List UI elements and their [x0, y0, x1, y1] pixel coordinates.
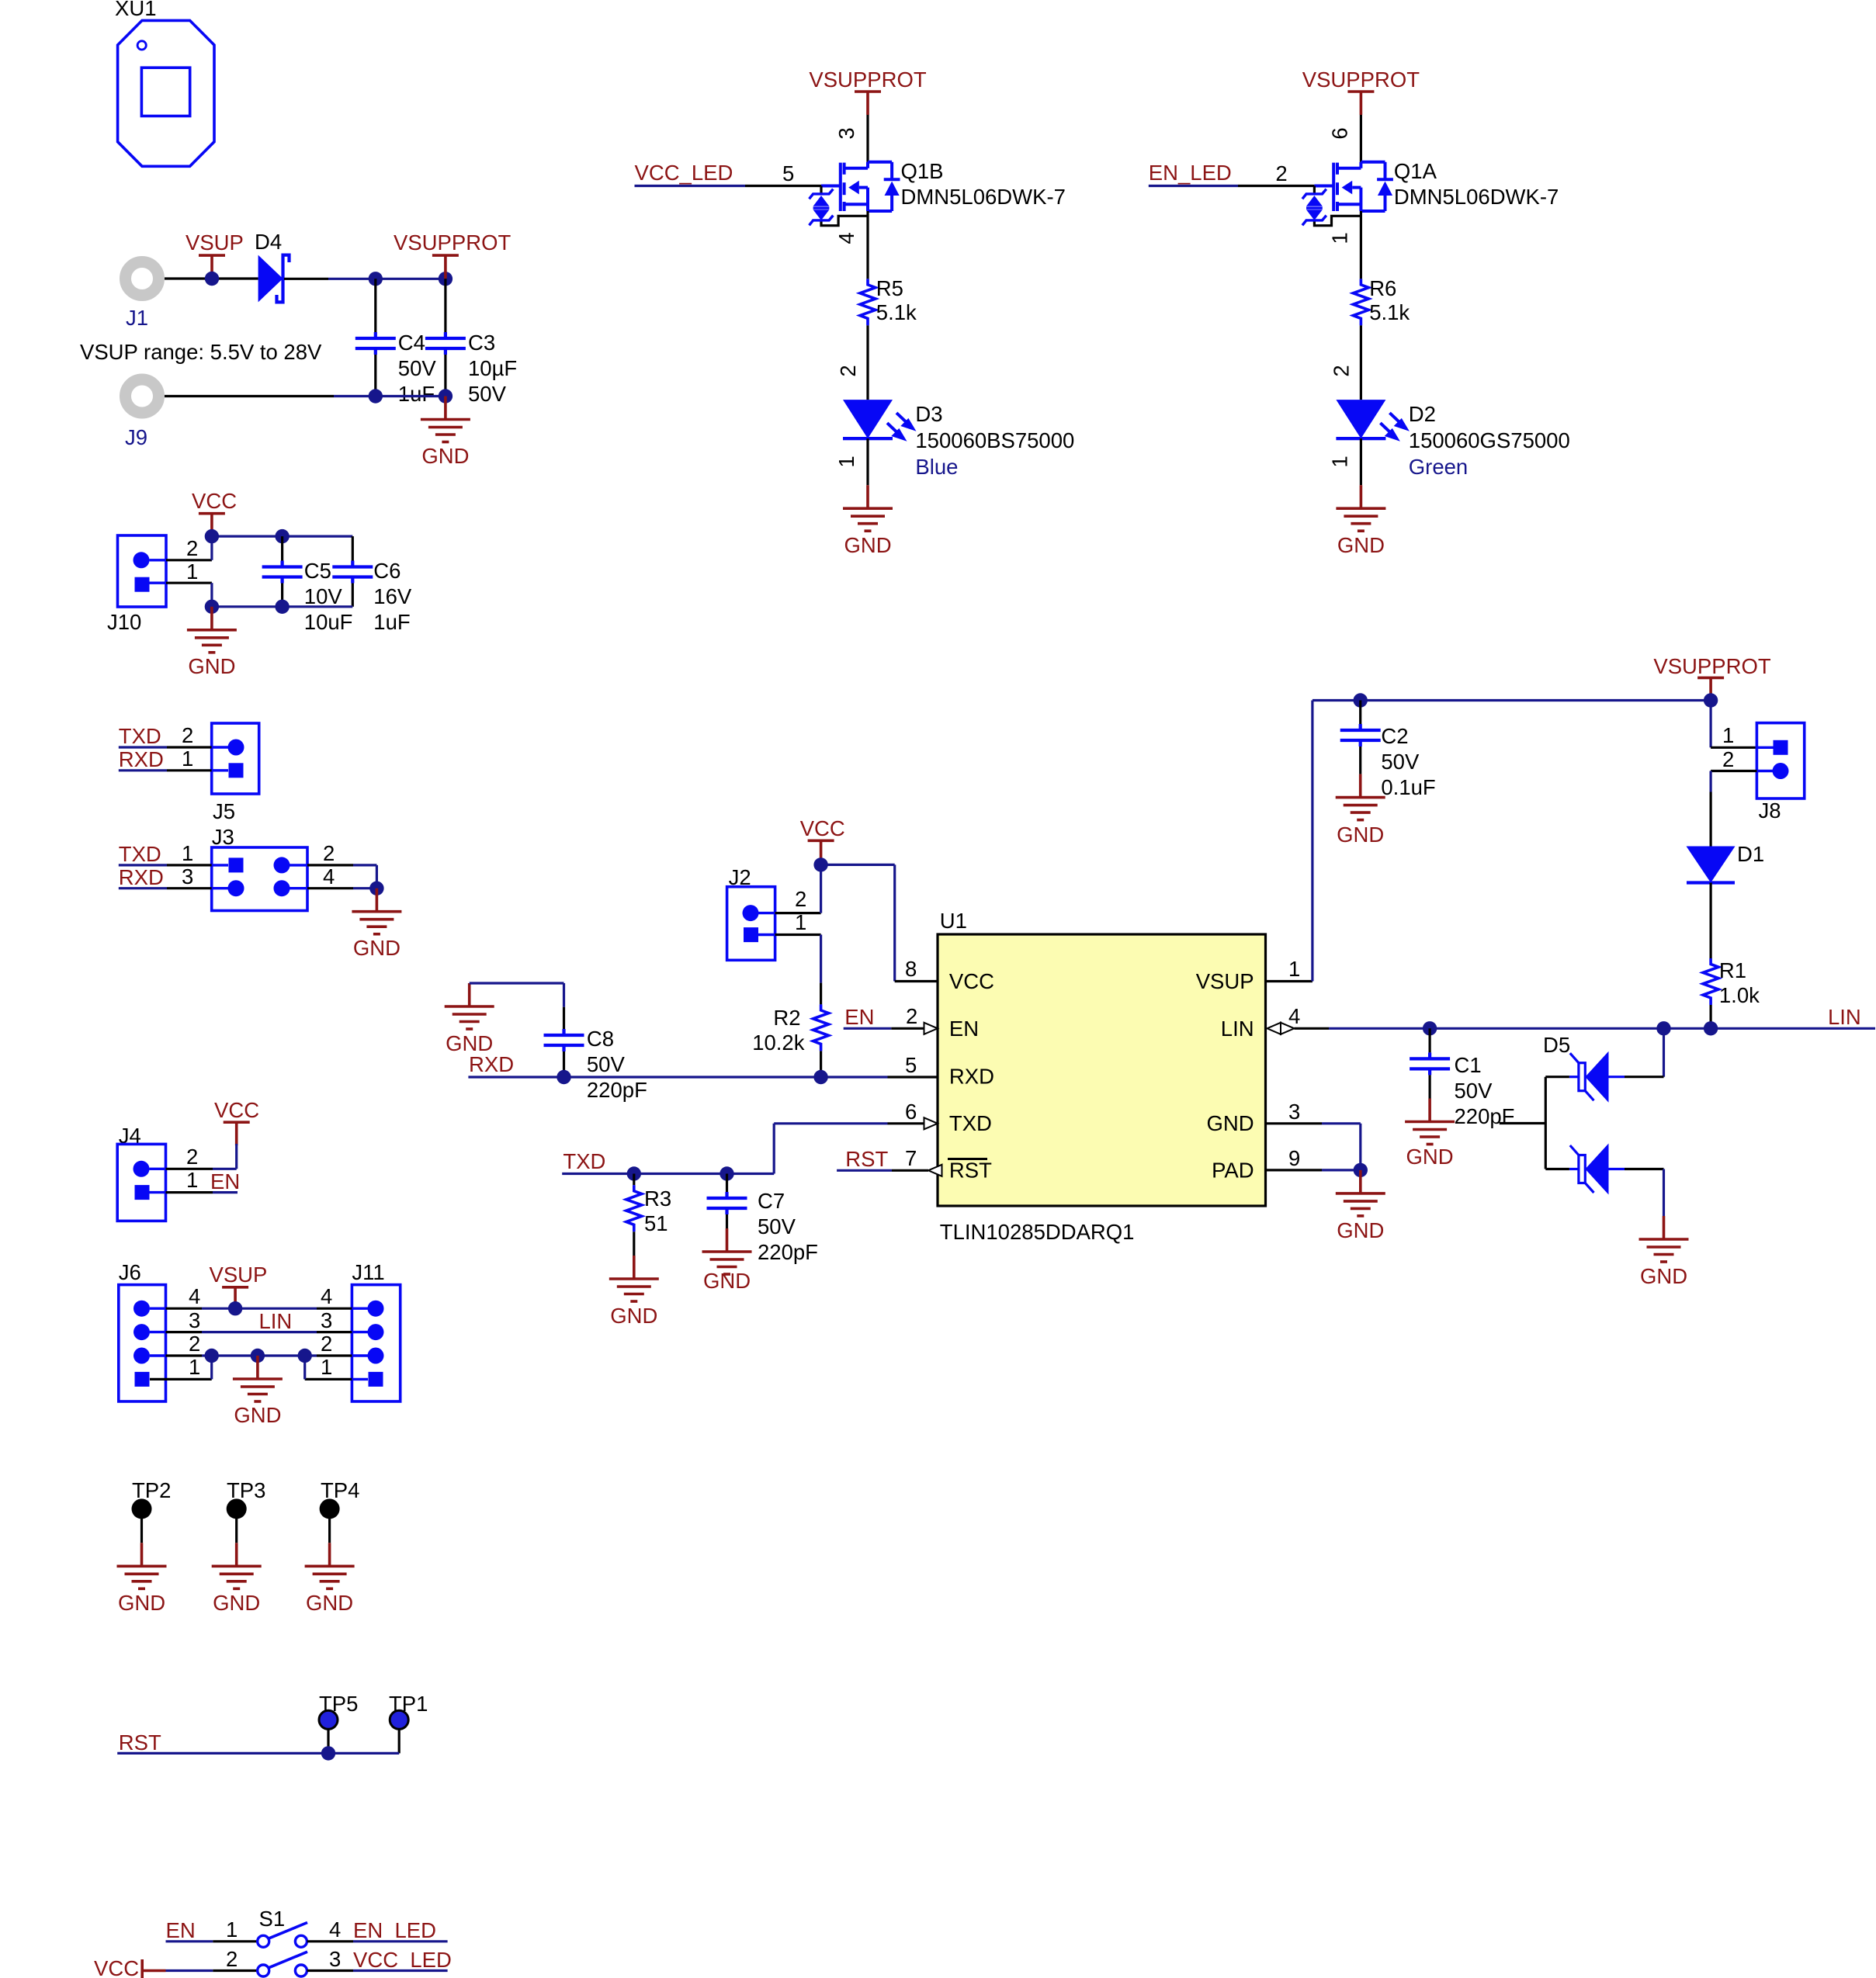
node D5 LIN — [1656, 1021, 1670, 1035]
wire GND bottom rail J10 — [212, 605, 352, 608]
pin arrow U1 LIN — [1267, 1023, 1295, 1034]
svg-text:GND: GND — [844, 533, 891, 557]
svg-text:LIN: LIN — [1221, 1017, 1254, 1041]
svg-text:Q1B: Q1B — [901, 159, 944, 183]
svg-text:RXD: RXD — [949, 1064, 994, 1088]
svg-text:1: 1 — [1327, 232, 1351, 244]
svg-text:GND: GND — [610, 1304, 657, 1328]
switch S1 pole 1 — [258, 1923, 307, 1948]
node GND mid J6 — [251, 1349, 265, 1363]
svg-text:1: 1 — [834, 456, 858, 467]
ground C7 — [702, 1228, 752, 1293]
ground C2 — [1336, 774, 1385, 847]
wire J3 pin4 to GND — [290, 887, 376, 889]
svg-text:4: 4 — [1288, 1004, 1300, 1028]
svg-text:5: 5 — [782, 161, 794, 185]
svg-text:D4: D4 — [255, 230, 282, 254]
svg-text:51: 51 — [644, 1211, 668, 1235]
node VCC J2 — [813, 857, 827, 871]
ground U1 PAD — [1336, 1170, 1385, 1242]
svg-text:7: 7 — [905, 1146, 917, 1170]
test point TP1 — [389, 1692, 428, 1753]
svg-text:RXD: RXD — [119, 747, 164, 771]
wire J6 pin4 to J11 pin4 VSUP — [150, 1307, 368, 1309]
svg-text:VCC: VCC — [949, 969, 994, 993]
svg-text:150060GS75000: 150060GS75000 — [1409, 428, 1570, 452]
wire RST to TP5 TP1 — [117, 1752, 399, 1755]
wire GND to C8 top — [470, 983, 564, 1029]
node C3 bottom — [439, 389, 453, 403]
pin arrow U1 RST — [928, 1165, 942, 1176]
svg-text:D5: D5 — [1543, 1033, 1570, 1057]
node J6 pin1 tie — [205, 1349, 219, 1363]
LED D3 — [843, 400, 1074, 479]
node VCC J10 — [205, 529, 219, 543]
svg-text:C1: C1 — [1455, 1053, 1482, 1077]
svg-text:J3: J3 — [212, 825, 234, 849]
svg-text:RXD: RXD — [119, 865, 164, 889]
connector J9 — [125, 379, 159, 449]
wire J6 pin2 to J11 pin2 GND — [150, 1354, 368, 1356]
svg-text:J1: J1 — [126, 306, 148, 330]
svg-text:50V: 50V — [1381, 750, 1420, 774]
capacitor C5 — [262, 536, 353, 634]
svg-text:1: 1 — [186, 1168, 198, 1192]
node J11 pin1 tie — [298, 1349, 312, 1363]
wire J4 pin2 to VCC — [150, 1144, 237, 1169]
svg-text:VCC: VCC — [192, 489, 237, 513]
wire U1 PAD pin9 — [1266, 1169, 1361, 1171]
wire S1 pin3 VCC_LED — [307, 1969, 448, 1972]
power port VCC J2 — [800, 816, 845, 864]
wire EN to U1 pin2 — [844, 1027, 924, 1030]
svg-text:GND: GND — [118, 1591, 165, 1615]
svg-text:GND: GND — [213, 1591, 260, 1615]
test point TP4 — [320, 1478, 360, 1543]
power port VCC S1 — [94, 1956, 166, 1978]
ground below C3 — [421, 397, 470, 469]
wire J2 pin1 to R2 — [758, 935, 821, 1005]
node C3 top — [439, 272, 453, 286]
svg-text:TP3: TP3 — [227, 1478, 265, 1502]
svg-text:4: 4 — [189, 1284, 200, 1308]
svg-text:8: 8 — [905, 957, 917, 981]
svg-text:DMN5L06DWK-7: DMN5L06DWK-7 — [1394, 185, 1559, 209]
wire J3 pin2 to GND — [290, 865, 376, 889]
test point TP3 — [227, 1478, 266, 1543]
svg-text:50V: 50V — [468, 382, 507, 406]
wire D4 to C4 C3 — [284, 278, 446, 280]
svg-text:RST: RST — [949, 1159, 992, 1183]
svg-text:GND: GND — [1337, 1218, 1384, 1242]
wire VCC_LED to Q1B gate — [635, 185, 822, 187]
svg-text:LIN: LIN — [1828, 1005, 1861, 1029]
ground Q1A LED — [1336, 485, 1385, 557]
node GND J10 — [205, 600, 219, 614]
ground below J10 — [187, 607, 237, 678]
svg-text:XU1: XU1 — [115, 0, 157, 20]
svg-text:1uF: 1uF — [398, 382, 435, 406]
svg-text:150060BS75000: 150060BS75000 — [915, 428, 1074, 452]
IC U1 TLIN10285DDARQ1 — [938, 909, 1266, 1244]
node VSUP junction — [205, 272, 219, 286]
wire J6 pin1 up — [150, 1356, 212, 1379]
svg-text:C6: C6 — [373, 559, 401, 583]
svg-text:RST: RST — [845, 1147, 888, 1171]
wire RXD to J3 pin3 — [119, 887, 228, 889]
svg-text:GND: GND — [1640, 1264, 1687, 1288]
power port VSUP — [186, 230, 244, 279]
connector J6 — [119, 1260, 166, 1401]
svg-text:2: 2 — [323, 841, 335, 865]
power port VSUPPROT Q1B — [809, 68, 926, 115]
node RST TP5 — [321, 1746, 335, 1760]
connector J11 — [352, 1260, 400, 1401]
wire D5 bottom to GND — [1625, 1169, 1664, 1217]
node C1 LIN — [1423, 1021, 1437, 1035]
capacitor C8 — [544, 1027, 647, 1102]
wire VCC to S1 pin2 — [166, 1969, 258, 1972]
svg-text:9: 9 — [1288, 1146, 1300, 1170]
svg-text:J8: J8 — [1759, 798, 1781, 823]
svg-text:VCC: VCC — [94, 1956, 139, 1978]
pin arrow U1 EN — [924, 1023, 938, 1034]
wire J8 pin2 to D1 — [1711, 771, 1773, 847]
ground J6 J11 — [233, 1356, 283, 1427]
svg-text:3: 3 — [834, 127, 858, 139]
svg-text:16V: 16V — [373, 584, 412, 608]
svg-text:TP2: TP2 — [132, 1478, 171, 1502]
node C4 top — [369, 272, 383, 286]
ground TP2 — [117, 1543, 167, 1615]
svg-text:GND: GND — [1406, 1145, 1454, 1169]
connector J2 — [727, 865, 775, 960]
wire J6 pin3 to J11 pin3 LIN — [150, 1331, 368, 1333]
capacitor C1 — [1410, 1028, 1514, 1128]
node VSUP J6 — [228, 1301, 242, 1315]
TVS D5 — [1543, 1033, 1625, 1195]
wire J10 pin1 to GND rail — [150, 583, 212, 607]
svg-text:D3: D3 — [915, 402, 942, 426]
capacitor C4 — [355, 279, 437, 406]
svg-text:2: 2 — [1329, 365, 1353, 376]
wire J10 pin2 to VCC — [150, 536, 212, 560]
svg-text:50V: 50V — [587, 1052, 626, 1076]
wire R3 to GND — [633, 1231, 635, 1256]
resistor R6 — [1353, 276, 1410, 325]
svg-text:1: 1 — [186, 559, 198, 584]
svg-text:2: 2 — [1275, 161, 1287, 185]
wire EN_LED to Q1A gate — [1149, 185, 1315, 187]
power port VSUPPROT — [394, 230, 511, 279]
svg-text:5.1k: 5.1k — [876, 300, 917, 324]
svg-text:4: 4 — [329, 1917, 341, 1942]
svg-text:10µF: 10µF — [468, 356, 517, 380]
ground below J3 — [352, 889, 401, 960]
capacitor C3 — [425, 279, 517, 406]
ground TP4 — [305, 1543, 355, 1615]
svg-text:1: 1 — [226, 1917, 238, 1942]
svg-text:1: 1 — [182, 747, 193, 771]
wire Q1B drain — [866, 115, 869, 162]
svg-text:2: 2 — [836, 365, 860, 376]
svg-text:2: 2 — [1722, 747, 1734, 771]
connector J10 — [107, 535, 166, 634]
wire TXD net to U1 pin6 — [562, 1124, 924, 1174]
wire Q1A source to R6 — [1360, 211, 1362, 279]
svg-text:1: 1 — [795, 910, 806, 934]
transistor Q1A — [1302, 159, 1559, 226]
svg-text:4: 4 — [321, 1284, 332, 1308]
svg-text:D1: D1 — [1737, 842, 1764, 866]
svg-text:10.2k: 10.2k — [752, 1031, 805, 1055]
svg-text:EN: EN — [949, 1017, 979, 1041]
svg-text:2: 2 — [795, 887, 806, 911]
svg-text:EN_LED: EN_LED — [353, 1918, 436, 1942]
svg-text:6: 6 — [905, 1100, 917, 1124]
svg-text:S1: S1 — [259, 1907, 286, 1931]
wire D5 common — [1500, 1077, 1569, 1169]
svg-text:VSUPPROT: VSUPPROT — [1302, 68, 1420, 92]
svg-text:4: 4 — [323, 864, 335, 889]
wire J11 pin1 up — [305, 1356, 368, 1379]
wire J2 pin2 to VCC — [758, 864, 821, 913]
resistor R2 — [752, 1004, 828, 1055]
svg-text:VCC_LED: VCC_LED — [635, 161, 733, 185]
ground C1 — [1405, 1099, 1455, 1169]
node TXD R3 — [627, 1166, 641, 1180]
svg-text:GND: GND — [188, 654, 235, 678]
node R1 LIN — [1704, 1021, 1718, 1035]
svg-text:Blue: Blue — [915, 455, 958, 479]
wire TXD to J5 pin2 — [119, 746, 228, 748]
svg-text:TLIN10285DDARQ1: TLIN10285DDARQ1 — [940, 1220, 1135, 1244]
node C4 bottom — [369, 389, 383, 403]
svg-text:1uF: 1uF — [373, 610, 410, 634]
ground D5 — [1639, 1216, 1689, 1288]
node PAD GND — [1354, 1163, 1368, 1177]
svg-text:GND: GND — [353, 936, 401, 960]
svg-text:1: 1 — [182, 841, 193, 865]
svg-text:1: 1 — [321, 1355, 332, 1379]
svg-text:50V: 50V — [1455, 1079, 1493, 1103]
svg-text:50V: 50V — [758, 1214, 796, 1238]
svg-text:TP4: TP4 — [321, 1478, 359, 1502]
ground R3 — [609, 1256, 659, 1328]
svg-text:J10: J10 — [107, 610, 141, 634]
svg-text:R2: R2 — [773, 1006, 800, 1030]
wire U1 VSUP to rail — [1266, 701, 1711, 982]
svg-text:220pF: 220pF — [758, 1240, 818, 1264]
svg-text:VCC: VCC — [214, 1098, 259, 1122]
svg-text:VSUPPROT: VSUPPROT — [394, 230, 511, 255]
svg-text:C7: C7 — [758, 1189, 785, 1213]
svg-text:R5: R5 — [876, 276, 903, 300]
svg-text:3: 3 — [321, 1308, 332, 1332]
svg-text:2: 2 — [321, 1332, 332, 1356]
svg-text:C4: C4 — [398, 331, 425, 355]
ground C8 top — [445, 983, 494, 1055]
svg-text:1: 1 — [189, 1355, 200, 1379]
svg-text:1.0k: 1.0k — [1719, 983, 1760, 1007]
svg-text:EN: EN — [210, 1169, 240, 1193]
LED D2 — [1336, 400, 1569, 479]
power port VCC — [192, 489, 237, 537]
wire D3 to GND — [866, 438, 869, 485]
diode D1 — [1687, 842, 1765, 883]
svg-text:PAD: PAD — [1212, 1159, 1254, 1183]
svg-text:TXD: TXD — [563, 1149, 605, 1173]
svg-text:C8: C8 — [587, 1027, 614, 1051]
node C8 RXD — [557, 1070, 570, 1084]
svg-text:D2: D2 — [1409, 402, 1436, 426]
svg-text:2: 2 — [182, 723, 193, 747]
svg-text:2: 2 — [906, 1004, 917, 1028]
connector J5 — [212, 723, 259, 823]
power port VSUPPROT Q1A — [1302, 68, 1420, 115]
svg-text:10V: 10V — [304, 584, 343, 608]
svg-text:R3: R3 — [644, 1186, 671, 1211]
svg-text:VCC: VCC — [800, 816, 845, 840]
svg-text:2: 2 — [186, 536, 198, 560]
node TXD C7 — [720, 1166, 733, 1180]
svg-text:EN: EN — [166, 1918, 196, 1942]
capacitor C6 — [332, 559, 412, 634]
svg-text:J5: J5 — [213, 799, 235, 823]
resistor R5 — [860, 276, 917, 325]
svg-text:10uF: 10uF — [304, 610, 353, 634]
wire U1 GND pin3 — [1266, 1124, 1361, 1170]
connector J4 — [117, 1124, 165, 1221]
svg-text:TXD: TXD — [119, 842, 161, 866]
wire RST to U1 pin7 — [837, 1169, 928, 1172]
svg-text:RST: RST — [119, 1730, 161, 1755]
power port VSUP J6 — [210, 1263, 268, 1311]
svg-text:0.1uF: 0.1uF — [1381, 775, 1435, 799]
ground Q1B LED — [843, 485, 893, 557]
wire J1 to D4 — [165, 277, 258, 279]
svg-text:4: 4 — [834, 232, 858, 244]
wire R1 to LIN — [1710, 1005, 1712, 1028]
capacitor C2 — [1340, 701, 1436, 800]
svg-text:C3: C3 — [468, 331, 495, 355]
pin arrow U1 TXD — [924, 1117, 938, 1129]
svg-text:GND: GND — [421, 444, 469, 468]
wire VCC to U1 pin8 — [821, 864, 938, 981]
svg-text:50V: 50V — [398, 356, 437, 380]
svg-text:3: 3 — [189, 1308, 200, 1332]
svg-text:5.1k: 5.1k — [1369, 300, 1410, 324]
wire R5 to D3 — [866, 325, 869, 400]
svg-text:TXD: TXD — [949, 1111, 992, 1135]
svg-text:GND: GND — [306, 1591, 353, 1615]
connector J1 — [126, 262, 159, 331]
svg-text:1: 1 — [1288, 957, 1300, 981]
wire S1 pin4 EN_LED — [307, 1940, 448, 1942]
test point TP5 — [319, 1692, 358, 1753]
svg-text:GND: GND — [1206, 1111, 1254, 1135]
svg-text:R6: R6 — [1369, 276, 1396, 300]
wire Q1B source to R5 — [866, 211, 869, 279]
svg-text:VSUPPROT: VSUPPROT — [809, 68, 926, 92]
node C2 rail — [1354, 693, 1368, 707]
node C5 top — [275, 529, 289, 543]
resistor R1 — [1703, 958, 1760, 1007]
svg-text:2: 2 — [189, 1332, 200, 1356]
svg-text:GND: GND — [1337, 823, 1384, 847]
power port VCC J4 — [214, 1098, 259, 1145]
svg-text:R1: R1 — [1719, 958, 1746, 982]
svg-text:VCC_LED: VCC_LED — [353, 1948, 452, 1972]
resistor R3 — [626, 1174, 671, 1236]
svg-text:3: 3 — [1288, 1100, 1300, 1124]
svg-text:6: 6 — [1327, 127, 1351, 139]
node VSUPPROT right — [1704, 693, 1718, 707]
wire J9 bottom rail — [165, 395, 446, 397]
svg-text:VSUP: VSUP — [1196, 969, 1254, 993]
svg-text:VSUP range: 5.5V to 28V: VSUP range: 5.5V to 28V — [80, 340, 322, 364]
wire R2 to RXD — [820, 1051, 822, 1077]
svg-text:J9: J9 — [125, 425, 147, 449]
svg-text:2: 2 — [186, 1145, 198, 1169]
wire TXD to J3 pin1 — [119, 864, 228, 866]
power port VSUPPROT right — [1653, 654, 1770, 701]
node J3 GND — [369, 882, 383, 895]
connector J3 — [212, 825, 307, 911]
svg-text:EN_LED: EN_LED — [1149, 161, 1232, 185]
wire LIN line — [1295, 1027, 1876, 1030]
svg-text:5: 5 — [905, 1053, 917, 1077]
svg-text:2: 2 — [226, 1947, 238, 1971]
svg-text:U1: U1 — [940, 909, 967, 933]
svg-text:VSUP: VSUP — [210, 1263, 268, 1287]
wire R6 to D2 — [1360, 325, 1362, 400]
wire C6 top drop — [352, 536, 354, 561]
wire VSUPPROT to J8 pin1 — [1711, 701, 1774, 748]
svg-text:1: 1 — [1722, 723, 1734, 747]
test point TP2 — [132, 1478, 172, 1543]
wire LIN to D5 top — [1625, 1028, 1664, 1076]
diode D4 — [255, 230, 290, 302]
connector J8 — [1756, 723, 1804, 823]
svg-text:LIN: LIN — [259, 1309, 293, 1333]
svg-text:3: 3 — [329, 1947, 341, 1971]
node C5 bottom — [275, 600, 289, 614]
wire Q1A drain — [1360, 115, 1362, 162]
wire VCC top rail — [212, 535, 352, 537]
svg-text:Q1A: Q1A — [1394, 159, 1437, 183]
svg-text:Green: Green — [1409, 455, 1468, 479]
wire D1 to R1 — [1710, 883, 1712, 959]
capacitor C7 — [707, 1174, 818, 1265]
transistor Q1B — [810, 159, 1066, 226]
svg-text:C2: C2 — [1381, 724, 1408, 748]
svg-text:J11: J11 — [352, 1260, 384, 1284]
svg-text:1: 1 — [1327, 456, 1351, 467]
wire EN to S1 pin1 — [166, 1940, 258, 1942]
wire J4 pin1 EN — [150, 1191, 238, 1193]
svg-text:J6: J6 — [119, 1260, 141, 1284]
svg-text:TXD: TXD — [119, 724, 161, 748]
svg-text:3: 3 — [182, 864, 193, 889]
wire RXD to U1 pin5 — [468, 1076, 938, 1078]
svg-text:GND: GND — [234, 1403, 281, 1427]
svg-text:RXD: RXD — [469, 1052, 514, 1076]
wire RXD to J5 pin1 — [119, 769, 228, 771]
fiducial XU1 — [115, 0, 214, 166]
svg-text:VSUPPROT: VSUPPROT — [1653, 654, 1770, 678]
svg-text:GND: GND — [1337, 533, 1385, 557]
